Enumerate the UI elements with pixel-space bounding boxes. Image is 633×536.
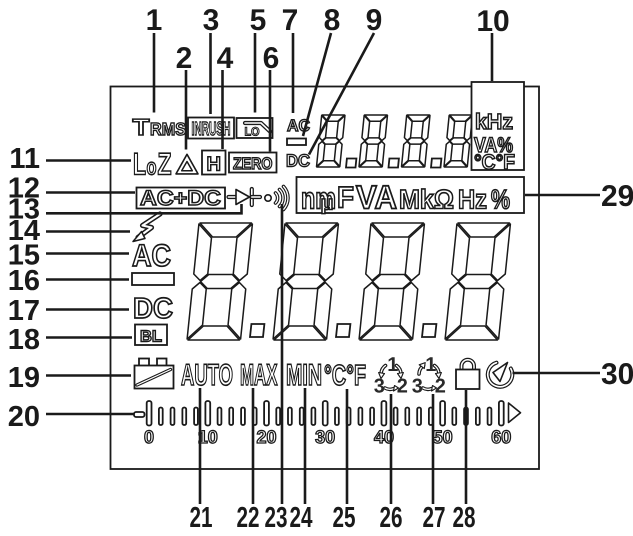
- svg-text:16: 16: [8, 265, 40, 297]
- phase rotation icon 1: [374, 354, 408, 398]
- svg-text:1: 1: [387, 354, 398, 376]
- INRUSH box: [188, 118, 234, 141]
- small digit 2: [359, 115, 388, 167]
- kHz VA% C F units box: [472, 82, 525, 174]
- svg-text:RMS: RMS: [150, 119, 186, 139]
- small minus sign: [287, 139, 306, 146]
- small digit 3: [401, 115, 430, 167]
- svg-text:23: 23: [265, 502, 288, 534]
- callout line 2: [185, 70, 188, 150]
- LO low-pass filter box: [237, 118, 273, 139]
- svg-text:AC: AC: [132, 238, 171, 273]
- svg-text:AC+DC: AC+DC: [140, 187, 221, 210]
- svg-text:ZERO: ZERO: [233, 155, 273, 173]
- svg-text:18: 18: [8, 324, 40, 356]
- svg-text:9: 9: [366, 4, 383, 37]
- svg-text:INRUSH: INRUSH: [192, 119, 231, 140]
- diode symbol: [229, 189, 261, 205]
- svg-text:3: 3: [374, 376, 385, 398]
- svg-text:26: 26: [380, 502, 403, 534]
- big digit 3: [359, 223, 424, 340]
- svg-text:2: 2: [397, 376, 408, 398]
- svg-text:2: 2: [176, 42, 193, 75]
- callout line 9: [309, 33, 374, 155]
- svg-text:7: 7: [282, 4, 299, 37]
- svg-text:H: H: [207, 154, 222, 176]
- svg-text:2: 2: [435, 376, 446, 398]
- svg-text:6: 6: [263, 42, 280, 75]
- svg-text:25: 25: [333, 502, 356, 534]
- callout line 23: [281, 204, 284, 504]
- ZERO box: [229, 153, 277, 174]
- callout line 4: [221, 70, 224, 149]
- callout line 13: [46, 204, 242, 213]
- svg-text:o: o: [147, 154, 157, 180]
- svg-text:VA: VA: [356, 179, 397, 216]
- callout line 28: [465, 390, 468, 504]
- callout line 26: [390, 394, 393, 504]
- svg-text:°C°F: °C°F: [474, 151, 515, 174]
- svg-text:DC: DC: [133, 293, 173, 325]
- svg-text:24: 24: [290, 502, 313, 534]
- svg-text:°C°F: °C°F: [324, 360, 366, 392]
- callout line 20: [46, 413, 134, 416]
- svg-text:DC: DC: [286, 151, 310, 171]
- svg-text:17: 17: [8, 295, 40, 327]
- svg-text:10: 10: [476, 5, 509, 38]
- svg-text:T: T: [133, 114, 150, 140]
- svg-text:29: 29: [601, 180, 633, 213]
- svg-text:BL: BL: [140, 329, 162, 346]
- svg-text:μ: μ: [321, 193, 334, 215]
- callout line 11: [46, 159, 131, 162]
- AC+DC box: [137, 187, 226, 210]
- battery icon: [135, 359, 174, 389]
- big digit 1: [187, 223, 252, 340]
- svg-text:Hz: Hz: [458, 185, 487, 215]
- svg-text:%: %: [491, 185, 510, 215]
- svg-text:28: 28: [453, 502, 476, 534]
- svg-text:0: 0: [144, 427, 154, 447]
- callout line 30: [513, 372, 601, 375]
- small decimal point 1: [346, 159, 356, 168]
- callout line 25: [346, 389, 349, 504]
- big minus sign: [132, 273, 174, 285]
- H hold box: [202, 151, 226, 176]
- small decimal point 2: [389, 159, 399, 168]
- svg-text:MkΩ: MkΩ: [399, 185, 454, 215]
- callout line 29: [525, 194, 600, 197]
- big decimal point 3: [422, 324, 436, 337]
- callout line 15: [46, 252, 129, 255]
- callout line 5: [254, 33, 257, 113]
- svg-text:20: 20: [8, 401, 40, 433]
- BL backlight box: [135, 325, 167, 346]
- svg-text:21: 21: [190, 502, 213, 534]
- callout line 3: [209, 33, 212, 114]
- svg-text:50: 50: [433, 427, 453, 447]
- LCD frame: [111, 87, 540, 470]
- svg-text:30: 30: [601, 358, 633, 391]
- big digit 2: [273, 223, 338, 340]
- svg-text:22: 22: [237, 502, 260, 534]
- small decimal point 3: [431, 159, 441, 168]
- callout line 17: [46, 308, 129, 311]
- buzzer / continuity icon: [265, 187, 288, 210]
- svg-text:30: 30: [315, 427, 335, 447]
- callout line 6: [269, 70, 272, 152]
- svg-text:5: 5: [250, 4, 267, 37]
- bargraph bars: [147, 401, 504, 426]
- LoZ label: [133, 147, 172, 182]
- callout line 19: [46, 374, 131, 377]
- svg-text:kHz: kHz: [475, 109, 513, 134]
- callout line 1: [153, 33, 156, 113]
- svg-text:AUTO: AUTO: [181, 359, 233, 392]
- callout line 21: [199, 388, 202, 504]
- big digit 4: [445, 223, 510, 340]
- callout line 24: [304, 388, 307, 504]
- svg-text:19: 19: [8, 362, 40, 394]
- svg-text:3: 3: [412, 376, 423, 398]
- svg-text:20: 20: [256, 427, 276, 447]
- auto power off icon: [488, 363, 513, 387]
- callout line 7: [292, 33, 295, 113]
- svg-text:LO: LO: [245, 125, 260, 139]
- callout line 22: [252, 388, 255, 504]
- callout line 12: [46, 191, 135, 194]
- svg-text:MAX: MAX: [240, 359, 278, 392]
- callout line 14: [46, 230, 130, 233]
- small digit 4: [444, 115, 473, 167]
- callout line 16: [46, 278, 129, 281]
- callout line 10: [491, 33, 494, 81]
- TRMS label: [133, 114, 187, 140]
- delta triangle: [176, 154, 198, 174]
- svg-text:3: 3: [203, 4, 220, 37]
- svg-text:F: F: [337, 182, 354, 215]
- bargraph minus sign: [134, 412, 145, 417]
- lock icon: [456, 360, 480, 389]
- big decimal point 2: [336, 324, 350, 337]
- lightning bolt hazard: [133, 214, 160, 242]
- callout line 18: [46, 336, 132, 339]
- bargraph arrow: [509, 403, 521, 423]
- svg-text:1: 1: [146, 4, 163, 37]
- svg-text:1: 1: [425, 354, 436, 376]
- svg-text:27: 27: [423, 502, 446, 534]
- svg-text:11: 11: [9, 143, 40, 175]
- main units box nmF VA MkOhm Hz %: [297, 177, 525, 216]
- small digit 1: [316, 115, 345, 167]
- bargraph scale labels: [144, 427, 511, 447]
- callout line 8: [303, 33, 331, 136]
- svg-text:60: 60: [491, 427, 511, 447]
- svg-text:Z: Z: [158, 147, 172, 182]
- svg-text:8: 8: [324, 4, 341, 37]
- callout line 27: [432, 394, 435, 504]
- phase rotation icon 2: [412, 354, 446, 398]
- svg-text:L: L: [133, 147, 146, 182]
- big decimal point 1: [250, 324, 264, 337]
- svg-text:4: 4: [217, 42, 234, 75]
- svg-text:MIN: MIN: [286, 359, 322, 392]
